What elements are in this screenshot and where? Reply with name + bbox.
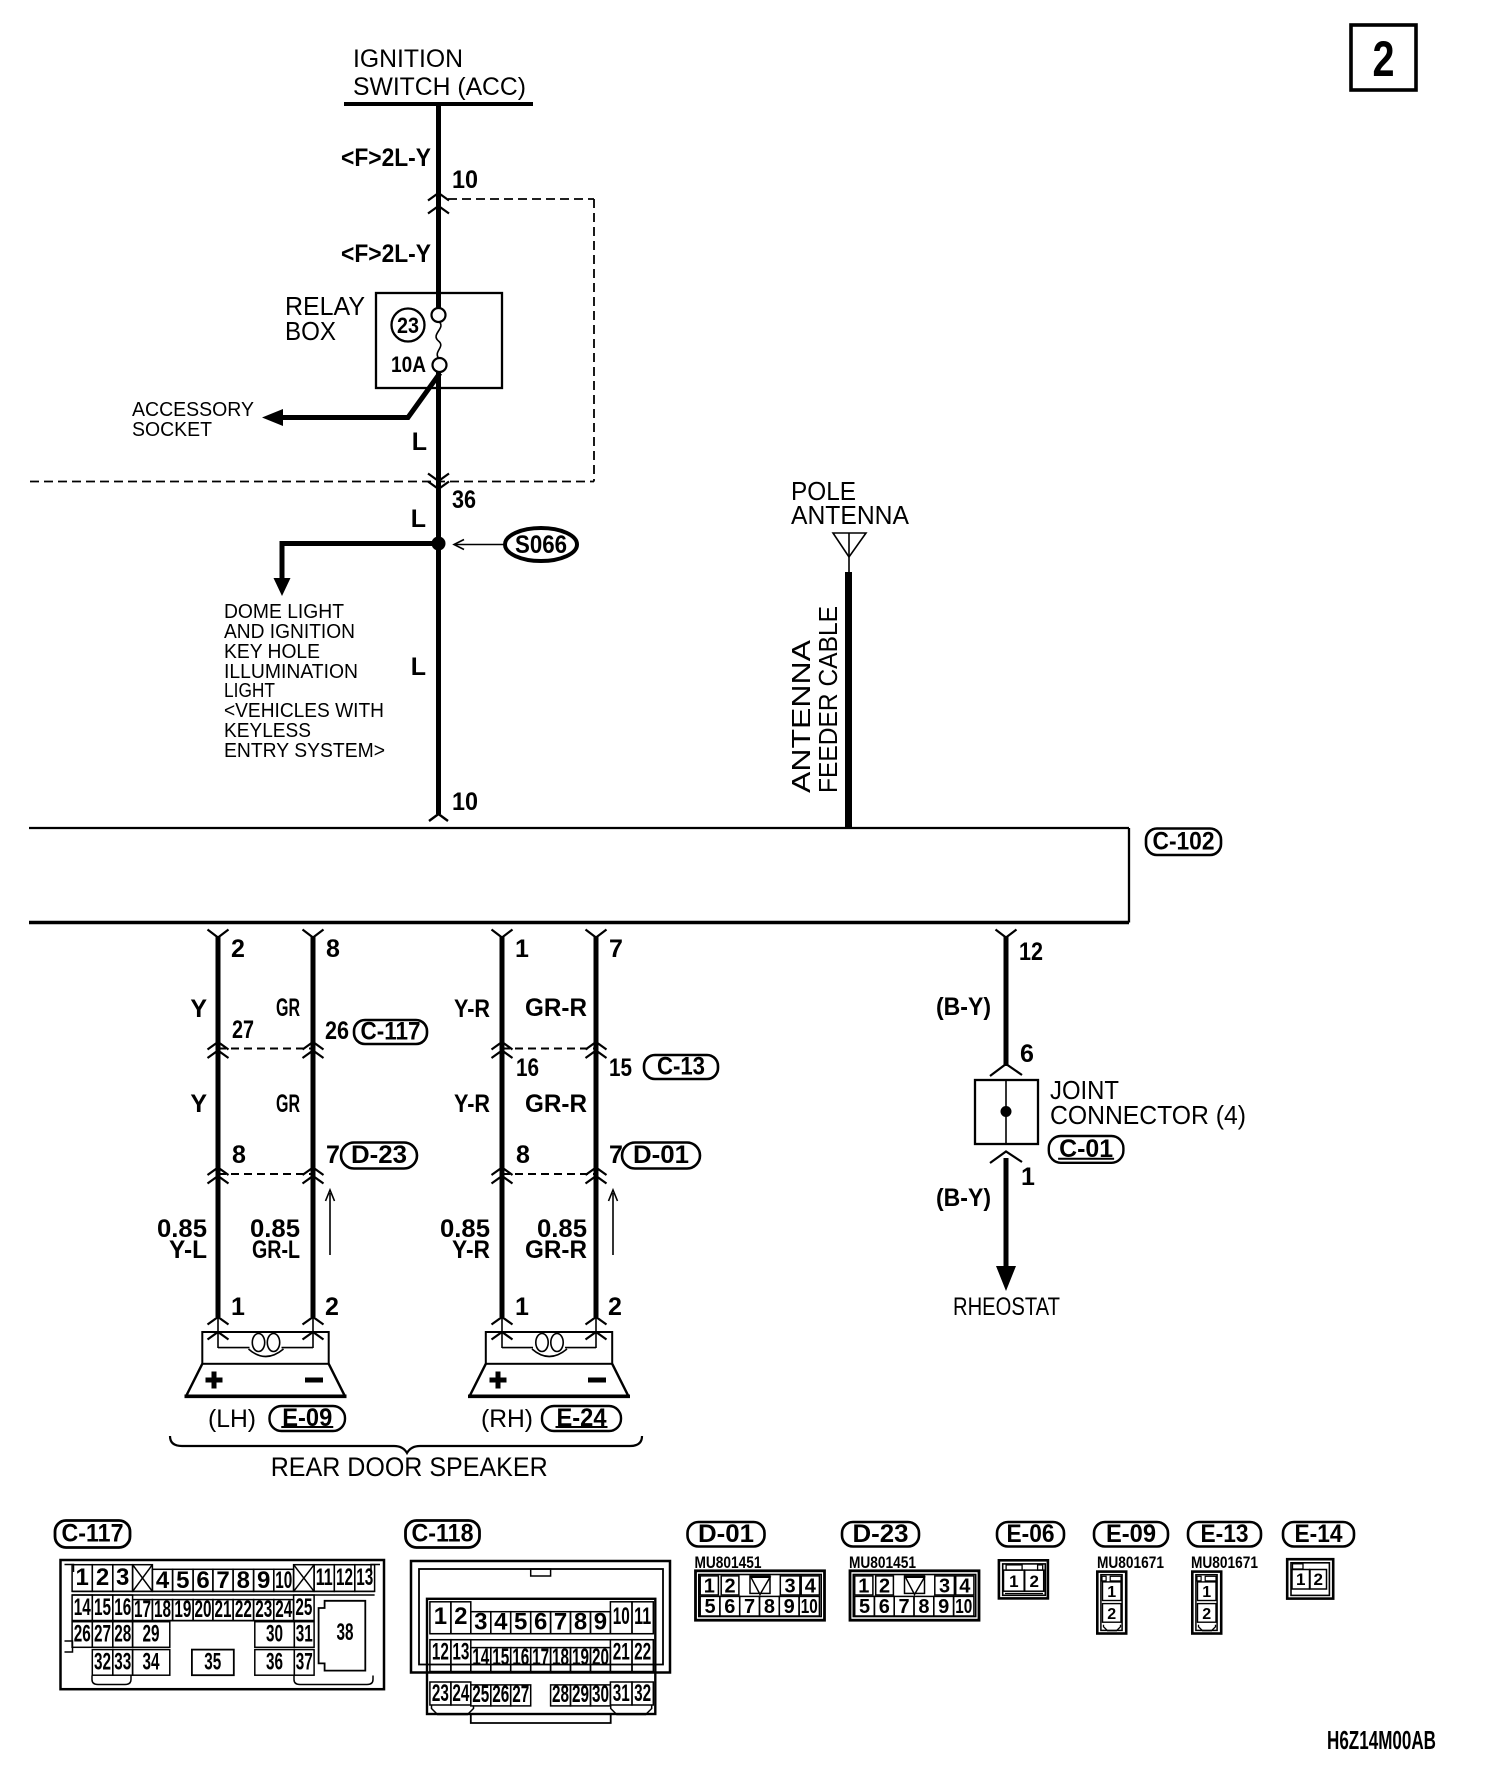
C-117 row4 cell 37 — [294, 1650, 314, 1676]
svg-text:2: 2 — [96, 1564, 109, 1591]
svg-text:C-117: C-117 — [361, 1018, 421, 1046]
svg-text:35: 35 — [204, 1649, 221, 1676]
wire rheostat B-Y lower with arrow — [1004, 1158, 1009, 1268]
connector chevrons at harness boundary bottom — [428, 474, 449, 482]
svg-text:(B-Y): (B-Y) — [936, 993, 991, 1021]
speaker cone trapezoid — [470, 1364, 628, 1396]
connector E-14 housing — [1287, 1559, 1333, 1598]
connector E-06 housing — [999, 1560, 1048, 1598]
svg-text:20: 20 — [195, 1596, 212, 1623]
C-117 row separator lines — [72, 1590, 375, 1592]
svg-text:8: 8 — [574, 1609, 587, 1636]
connector code C-13 inline — [644, 1055, 718, 1079]
svg-text:29: 29 — [572, 1681, 589, 1708]
svg-text:22: 22 — [235, 1596, 252, 1623]
antenna symbol — [833, 533, 866, 557]
svg-text:2: 2 — [1107, 1606, 1116, 1623]
svg-text:27: 27 — [512, 1681, 529, 1708]
svg-text:31: 31 — [613, 1680, 630, 1707]
svg-text:E-06: E-06 — [1007, 1520, 1055, 1548]
svg-text:16: 16 — [512, 1644, 529, 1671]
speaker terminal chevrons left — [501, 1317, 503, 1348]
svg-text:1: 1 — [1296, 1570, 1305, 1589]
svg-text:L: L — [411, 505, 426, 533]
svg-text:13: 13 — [452, 1639, 469, 1666]
svg-text:GR-R: GR-R — [525, 1090, 587, 1118]
svg-text:8: 8 — [764, 1596, 775, 1618]
svg-text:8: 8 — [237, 1567, 250, 1594]
connector C-117 housing — [61, 1560, 385, 1689]
accessory socket arrowhead — [262, 409, 283, 426]
C-118 row2 cells 21 22 — [610, 1640, 632, 1672]
svg-text:6: 6 — [196, 1567, 209, 1594]
speaker terminal chevrons right — [595, 1317, 597, 1348]
svg-text:SOCKET: SOCKET — [132, 419, 212, 441]
svg-text:10: 10 — [613, 1603, 630, 1630]
direction arrow on GR-L wire — [329, 1193, 331, 1255]
wire speaker RH negative GR-R — [594, 936, 599, 1317]
S066 pointer arrow — [456, 544, 505, 546]
svg-text:FEEDER CABLE: FEEDER CABLE — [813, 606, 843, 793]
connector C-118 housing inner — [419, 1569, 663, 1665]
svg-text:12: 12 — [1019, 938, 1043, 966]
svg-text:2: 2 — [1202, 1606, 1211, 1623]
svg-text:19: 19 — [572, 1644, 589, 1671]
svg-text:33: 33 — [114, 1649, 131, 1676]
C-118 pin block outline — [427, 1599, 655, 1714]
relay box outline — [376, 293, 502, 388]
svg-text:17: 17 — [532, 1644, 549, 1671]
svg-text:23: 23 — [432, 1680, 449, 1707]
svg-text:30: 30 — [592, 1681, 609, 1708]
speaker minus terminal — [588, 1378, 606, 1383]
svg-text:E-13: E-13 — [1201, 1520, 1249, 1548]
svg-text:12: 12 — [432, 1639, 449, 1666]
svg-text:11: 11 — [316, 1564, 333, 1591]
in-line connector D-23 dashed line — [218, 1173, 313, 1175]
svg-text:4: 4 — [156, 1567, 170, 1594]
svg-text:15: 15 — [492, 1644, 509, 1671]
svg-text:16: 16 — [516, 1054, 539, 1082]
svg-text:C-13: C-13 — [657, 1053, 705, 1081]
svg-text:BOX: BOX — [285, 316, 336, 346]
svg-text:3: 3 — [785, 1576, 796, 1598]
svg-text:12: 12 — [336, 1564, 353, 1591]
svg-text:38: 38 — [337, 1619, 354, 1646]
svg-text:2: 2 — [608, 1293, 622, 1321]
svg-text:23: 23 — [255, 1596, 272, 1623]
svg-text:32: 32 — [94, 1649, 111, 1676]
svg-text:21: 21 — [613, 1639, 630, 1666]
fuse terminal top — [432, 308, 446, 322]
connector D-23 keying cavity triangle — [905, 1576, 925, 1594]
svg-text:2: 2 — [454, 1603, 467, 1630]
direction arrow on GR-R wire — [612, 1193, 614, 1255]
svg-text:8: 8 — [326, 935, 340, 963]
speaker coil box — [486, 1332, 612, 1364]
C-118 row3 cells 31 32 — [610, 1682, 632, 1705]
svg-text:5: 5 — [859, 1596, 870, 1618]
connector D-01 housing — [696, 1571, 825, 1620]
dashed harness boundary bottom edge — [30, 481, 594, 483]
C-117 cell 35 box — [192, 1650, 234, 1676]
svg-text:2: 2 — [1373, 31, 1395, 87]
svg-text:6: 6 — [1020, 1040, 1034, 1068]
svg-text:18: 18 — [552, 1644, 569, 1671]
svg-text:2: 2 — [724, 1576, 735, 1598]
svg-text:9: 9 — [594, 1609, 607, 1636]
connector D-01 row2 cells 5-10 — [700, 1596, 720, 1616]
svg-text:24: 24 — [275, 1596, 292, 1623]
connector code E-06 title — [997, 1522, 1064, 1547]
svg-text:8: 8 — [918, 1596, 929, 1618]
connector code C-01 — [1049, 1136, 1124, 1163]
speaker plus terminal — [490, 1378, 507, 1383]
connector code D-23 title — [842, 1522, 919, 1547]
C-117 cell 38 large — [319, 1601, 366, 1671]
C-118 row2 cells 14-20 — [471, 1648, 491, 1672]
wire speaker LH negative GR — [311, 936, 316, 1317]
wire speaker RH positive Y-R — [500, 936, 505, 1317]
svg-text:9: 9 — [257, 1567, 270, 1594]
svg-text:1: 1 — [434, 1603, 447, 1630]
svg-text:CONNECTOR (4): CONNECTOR (4) — [1050, 1100, 1246, 1130]
svg-text:KEYLESS: KEYLESS — [224, 720, 311, 742]
C-117 row4 cells 32 33 — [92, 1650, 113, 1676]
E-06 cells 1 2 — [1004, 1570, 1025, 1591]
connector D-23 row1 cells — [855, 1576, 873, 1595]
svg-text:32: 32 — [634, 1680, 651, 1707]
radio unit connector C-102 box — [29, 827, 1129, 829]
chevrons wire GR at D-23 — [303, 1168, 324, 1176]
svg-text:L: L — [412, 428, 427, 456]
connector code E-09 speaker — [270, 1406, 346, 1431]
fuse terminal bottom — [433, 358, 447, 372]
C-118 row1 cells 3-9 — [471, 1612, 491, 1634]
svg-text:GR-R: GR-R — [525, 994, 587, 1022]
svg-text:MU801671: MU801671 — [1097, 1553, 1164, 1572]
chevrons wire GR-R at C-13 — [586, 1042, 607, 1050]
svg-text:27: 27 — [232, 1016, 254, 1044]
svg-text:SWITCH (ACC): SWITCH (ACC) — [353, 73, 526, 101]
svg-text:D-23: D-23 — [853, 1520, 909, 1548]
svg-text:3: 3 — [939, 1576, 950, 1598]
connector code D-01 inline — [622, 1143, 700, 1169]
svg-text:36: 36 — [266, 1649, 283, 1676]
svg-text:10: 10 — [275, 1567, 292, 1594]
bus bar under ignition switch label — [344, 102, 533, 106]
chevrons wire Y at D-23 — [208, 1168, 229, 1176]
chevrons wire Y-R at D-01 — [492, 1168, 513, 1176]
svg-text:19: 19 — [174, 1596, 191, 1623]
svg-text:LIGHT: LIGHT — [224, 680, 275, 702]
svg-text:IGNITION: IGNITION — [353, 45, 463, 73]
C-118 top notch — [531, 1569, 551, 1576]
svg-text:6: 6 — [534, 1609, 547, 1636]
C-117 row3 cell 29 wide — [133, 1622, 170, 1648]
connector D-01 keying cavity triangle — [750, 1576, 770, 1594]
svg-text:1: 1 — [515, 935, 529, 963]
svg-text:Y-R: Y-R — [454, 1090, 490, 1118]
svg-text:AND IGNITION: AND IGNITION — [224, 621, 355, 643]
svg-text:L: L — [411, 653, 426, 681]
fuse element squiggle — [436, 321, 441, 359]
C-117 row3 cell 31 — [294, 1622, 314, 1648]
svg-text:6: 6 — [724, 1596, 735, 1618]
connector code C-117 inline — [354, 1020, 427, 1044]
svg-text:GR: GR — [276, 1090, 300, 1118]
svg-text:25: 25 — [472, 1681, 489, 1708]
E-14 cells 1 2 — [1292, 1570, 1310, 1590]
connector chevrons at harness boundary top — [428, 193, 449, 201]
svg-text:DOME LIGHT: DOME LIGHT — [224, 601, 344, 623]
C-102 pin 1 exit chevron — [492, 930, 513, 938]
connector code D-23 inline — [341, 1143, 417, 1169]
svg-text:5: 5 — [704, 1596, 715, 1618]
svg-text:2: 2 — [231, 935, 245, 963]
accessory socket branch wire — [277, 373, 440, 418]
speaker terminal chevrons right — [312, 1317, 314, 1348]
svg-text:7: 7 — [899, 1596, 910, 1618]
joint connector exit chevron — [990, 1152, 1022, 1164]
C-118 row1 cells 10 11 — [610, 1602, 632, 1634]
svg-text:D-01: D-01 — [698, 1520, 754, 1548]
svg-text:2: 2 — [1313, 1570, 1322, 1589]
E-09 top tabs — [1102, 1576, 1106, 1581]
svg-text:Y: Y — [190, 995, 207, 1023]
svg-text:17: 17 — [134, 1596, 151, 1623]
chevrons wire Y at C-117 — [208, 1042, 229, 1050]
svg-text:Y-L: Y-L — [169, 1236, 207, 1264]
svg-text:10: 10 — [452, 788, 478, 816]
C-117 row1 cells 4-10 — [152, 1569, 172, 1591]
speaker terminal chevrons left — [217, 1317, 219, 1348]
C-117 row3 cells 26 27 28 — [72, 1622, 92, 1648]
svg-text:ENTRY SYSTEM>: ENTRY SYSTEM> — [224, 740, 385, 762]
svg-text:10: 10 — [955, 1596, 972, 1618]
connector code E-13 title — [1188, 1522, 1261, 1547]
svg-text:1: 1 — [1202, 1584, 1211, 1601]
svg-text:1: 1 — [1021, 1163, 1035, 1191]
svg-text:1: 1 — [704, 1576, 715, 1598]
svg-text:13: 13 — [356, 1564, 373, 1591]
svg-text:7: 7 — [326, 1141, 340, 1169]
E-09 cells 1 2 — [1103, 1582, 1122, 1601]
speaker plus terminal — [206, 1378, 223, 1383]
svg-text:E-14: E-14 — [1295, 1520, 1343, 1548]
svg-text:Y-R: Y-R — [454, 995, 490, 1023]
svg-text:7: 7 — [554, 1609, 567, 1636]
svg-text:4: 4 — [959, 1576, 971, 1598]
svg-text:28: 28 — [114, 1621, 131, 1648]
svg-text:S066: S066 — [515, 531, 567, 559]
svg-text:D-01: D-01 — [633, 1141, 689, 1169]
svg-text:26: 26 — [325, 1017, 349, 1045]
svg-text:30: 30 — [266, 1621, 283, 1648]
svg-text:RHEOSTAT: RHEOSTAT — [953, 1293, 1060, 1321]
connector code C-118 title — [406, 1521, 480, 1548]
connector E-13 housing — [1192, 1572, 1221, 1634]
svg-text:8: 8 — [516, 1141, 530, 1169]
svg-text:6: 6 — [879, 1596, 890, 1618]
svg-text:MU801451: MU801451 — [695, 1553, 762, 1572]
speaker coil box — [202, 1332, 328, 1364]
svg-text:28: 28 — [552, 1681, 569, 1708]
E-09 bottom tab — [1104, 1625, 1121, 1631]
svg-text:(B-Y): (B-Y) — [936, 1184, 991, 1212]
C-117 row2 cell 25 — [294, 1595, 315, 1621]
svg-text:7: 7 — [609, 935, 623, 963]
C-117 row1 keying cell X right — [294, 1565, 315, 1592]
svg-text:1: 1 — [858, 1576, 869, 1598]
splice label S066 oval — [505, 528, 577, 561]
svg-text:20: 20 — [592, 1644, 609, 1671]
C-118 row3 cells 25 26 27 — [471, 1685, 491, 1706]
chevrons wire GR-R at D-01 — [586, 1168, 607, 1176]
svg-text:REAR DOOR SPEAKER: REAR DOOR SPEAKER — [271, 1452, 548, 1482]
svg-text:GR: GR — [276, 994, 300, 1022]
in-line connector D-01 dashed line — [502, 1173, 596, 1175]
C-117 row4 cell 36 — [255, 1650, 294, 1676]
connector D-23 housing — [850, 1571, 979, 1620]
svg-text:ACCESSORY: ACCESSORY — [132, 399, 254, 421]
connector D-01 row1 cells — [700, 1576, 718, 1595]
svg-text:16: 16 — [114, 1594, 131, 1621]
E-14 top tab — [1293, 1564, 1304, 1569]
wire W1 ignition feed vertical upper segment — [436, 104, 441, 309]
page number box 2 — [1351, 25, 1416, 90]
connector code C-102 — [1146, 829, 1221, 856]
speaker cone trapezoid — [187, 1364, 345, 1396]
svg-text:36: 36 — [452, 486, 476, 514]
svg-text:E-09: E-09 — [1106, 1520, 1156, 1548]
svg-text:3: 3 — [116, 1564, 129, 1591]
wire W1 entry chevron at C-102 — [429, 814, 448, 821]
svg-text:1: 1 — [1009, 1572, 1018, 1591]
svg-text:21: 21 — [215, 1596, 232, 1623]
svg-text:H6Z14M00AB: H6Z14M00AB — [1327, 1725, 1436, 1755]
svg-text:9: 9 — [784, 1596, 795, 1618]
svg-text:Y: Y — [190, 1090, 207, 1118]
dome light branch arrowhead — [274, 578, 291, 596]
E-13 cells 1 2 — [1198, 1582, 1217, 1601]
connector code E-24 speaker — [542, 1406, 621, 1431]
svg-text:7: 7 — [216, 1567, 229, 1594]
connector code C-117 title — [55, 1521, 130, 1548]
svg-text:GR-L: GR-L — [252, 1236, 300, 1264]
svg-text:C-118: C-118 — [412, 1520, 474, 1548]
wire rheostat B-Y upper — [1004, 936, 1009, 1066]
svg-text:MU801671: MU801671 — [1191, 1553, 1258, 1572]
C-118 row3 cells 23 24 — [430, 1682, 451, 1705]
antenna feeder cable thick wire — [845, 572, 852, 828]
C-117 row1 keying cell X left — [133, 1565, 153, 1592]
svg-text:<F>2L-Y: <F>2L-Y — [341, 240, 431, 268]
svg-text:C-102: C-102 — [1153, 827, 1215, 855]
svg-text:1: 1 — [1107, 1584, 1116, 1601]
connector D-23 row1 cells 3 4 — [935, 1576, 955, 1595]
svg-text:ANTENNA: ANTENNA — [786, 639, 816, 793]
svg-text:26: 26 — [492, 1681, 509, 1708]
fuse number circle 23 — [392, 309, 425, 342]
svg-text:24: 24 — [452, 1680, 469, 1707]
svg-text:26: 26 — [74, 1621, 91, 1648]
svg-text:(LH): (LH) — [208, 1405, 256, 1433]
C-118 bottom tabs — [432, 1706, 474, 1715]
svg-text:9: 9 — [938, 1596, 949, 1618]
C-102 pin 12 exit chevron — [996, 930, 1017, 938]
C-118 row3 cells 28 29 30 — [551, 1685, 571, 1706]
svg-text:1: 1 — [76, 1564, 89, 1591]
svg-text:1: 1 — [515, 1293, 529, 1321]
chevrons wire Y-R at C-13 — [492, 1042, 513, 1050]
joint connector C-01 box — [975, 1080, 1038, 1144]
joint connector entry chevron — [990, 1064, 1022, 1076]
wire speaker LH positive Y — [216, 936, 221, 1317]
svg-text:D-23: D-23 — [351, 1141, 407, 1169]
wire W1 lower segment to joint S066 and C-102 — [436, 371, 441, 814]
svg-text:5: 5 — [514, 1609, 527, 1636]
svg-text:15: 15 — [94, 1594, 111, 1621]
svg-text:MU801451: MU801451 — [849, 1553, 916, 1572]
connector E-09 housing — [1097, 1572, 1126, 1634]
C-117 row2 cells 17-24 — [133, 1600, 153, 1621]
svg-text:18: 18 — [154, 1596, 171, 1623]
C-102 pin 2 exit chevron — [208, 930, 229, 938]
svg-text:Y-R: Y-R — [452, 1236, 490, 1264]
svg-text:29: 29 — [143, 1621, 160, 1648]
svg-text:34: 34 — [143, 1649, 160, 1676]
connector C-118 housing outer — [411, 1561, 670, 1673]
svg-text:<F>2L-Y: <F>2L-Y — [341, 144, 431, 172]
E-06 top tabs — [1006, 1565, 1022, 1570]
C-117 row1 cells 1 2 3 — [72, 1565, 92, 1592]
svg-text:7: 7 — [744, 1596, 755, 1618]
svg-text:1: 1 — [231, 1293, 245, 1321]
C-117 row3 cell 30 — [255, 1622, 294, 1648]
connector D-01 row1 cells 3 4 — [780, 1576, 800, 1595]
svg-text:C-117: C-117 — [62, 1520, 124, 1548]
C-118 row1 cells 1 2 — [430, 1602, 451, 1634]
svg-text:2: 2 — [879, 1576, 890, 1598]
svg-text:10: 10 — [801, 1596, 818, 1618]
svg-text:8: 8 — [232, 1141, 246, 1169]
svg-text:2: 2 — [1029, 1572, 1038, 1591]
svg-text:22: 22 — [634, 1639, 651, 1666]
svg-text:10: 10 — [452, 166, 478, 194]
connector C-117 bottom tabs — [92, 1676, 131, 1685]
svg-text:11: 11 — [634, 1603, 651, 1630]
svg-text:10A: 10A — [391, 352, 426, 377]
svg-text:2: 2 — [325, 1293, 339, 1321]
E-13 top tabs — [1197, 1576, 1201, 1581]
speaker minus terminal — [305, 1378, 323, 1383]
svg-text:14: 14 — [472, 1644, 489, 1671]
svg-text:3: 3 — [474, 1609, 487, 1636]
connector code E-14 title — [1283, 1522, 1354, 1547]
branch wire to dome light — [282, 541, 440, 546]
brace grouping rear door speakers — [170, 1436, 642, 1453]
speaker voice coil — [218, 1347, 250, 1349]
C-118 bottom plate — [471, 1714, 611, 1723]
svg-text:27: 27 — [94, 1621, 111, 1648]
C-102 pin 8 exit chevron — [303, 930, 324, 938]
C-102 pin 7 exit chevron — [586, 930, 607, 938]
svg-text:25: 25 — [295, 1594, 312, 1621]
C-118 row separators — [430, 1633, 653, 1635]
in-line connector C-117 dashed line left pair — [218, 1048, 313, 1050]
dashed harness boundary right edge — [593, 199, 595, 482]
